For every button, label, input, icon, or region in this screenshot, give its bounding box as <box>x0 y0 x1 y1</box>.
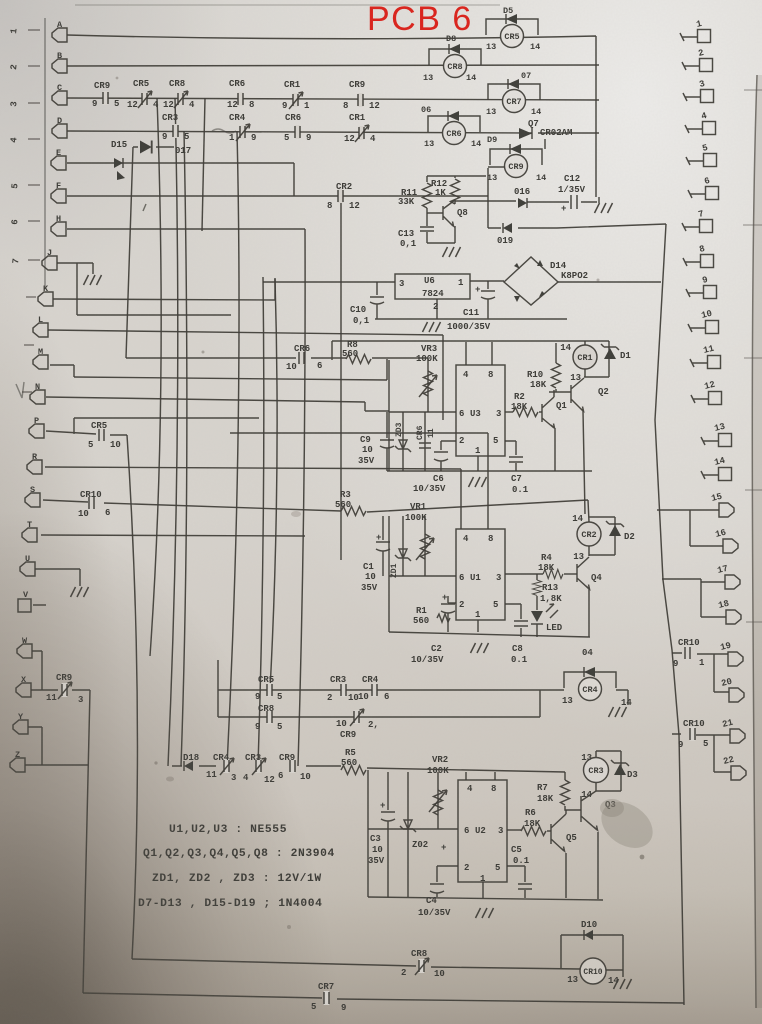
svg-text:PCB 6: PCB 6 <box>367 0 473 38</box>
